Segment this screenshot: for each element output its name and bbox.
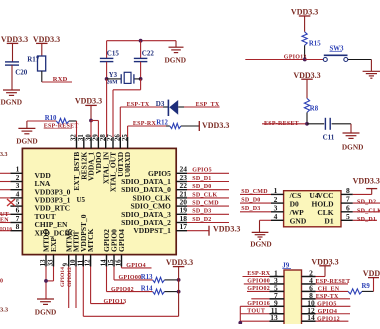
U5 pin 25 stub xyxy=(127,137,129,148)
svg-text:GPIO4: GPIO4 xyxy=(318,309,338,315)
U5 pin 11 stub xyxy=(82,255,84,267)
svg-text:GPIO16: GPIO16 xyxy=(247,301,270,307)
J9 pin 4 stub xyxy=(302,283,316,285)
svg-text:GND: GND xyxy=(290,217,307,226)
svg-text:GPIO4: GPIO4 xyxy=(117,229,126,252)
power VDD3.3 (R12) xyxy=(198,121,200,131)
resistor R12 xyxy=(170,123,181,128)
wire xyxy=(305,59,323,61)
U4 pin 1 stub xyxy=(271,193,284,195)
J9 pin 14 stub xyxy=(302,320,316,322)
svg-text:29: 29 xyxy=(93,134,100,141)
U5 pin 3 stub xyxy=(10,189,22,191)
wire xyxy=(127,126,129,137)
wire xyxy=(45,267,47,300)
wire xyxy=(68,267,70,309)
wire xyxy=(353,219,377,221)
wire xyxy=(113,267,115,280)
svg-text:VDD3.3: VDD3.3 xyxy=(311,257,338,266)
wire xyxy=(316,313,351,315)
wire xyxy=(316,305,351,307)
crystal Y3 xyxy=(107,78,122,80)
svg-text:GPIO02: GPIO02 xyxy=(111,287,134,293)
wire xyxy=(187,205,229,207)
capacitor C15 xyxy=(106,41,108,59)
svg-text:IO16: IO16 xyxy=(0,226,12,232)
wire xyxy=(306,112,308,123)
svg-text:R12: R12 xyxy=(156,120,168,127)
power VDD3.3 (U4 VCC) xyxy=(366,188,377,190)
svg-text:C11: C11 xyxy=(323,133,335,141)
svg-text:14: 14 xyxy=(101,259,108,266)
svg-text:U5: U5 xyxy=(77,196,86,204)
wire xyxy=(262,123,307,125)
svg-text:VDD3.3: VDD3.3 xyxy=(166,258,193,267)
wire xyxy=(370,60,372,72)
wire xyxy=(348,59,371,61)
U4 pin 8 stub xyxy=(341,193,353,195)
svg-text:GPIO13: GPIO13 xyxy=(104,299,127,305)
ground DGND (U4) xyxy=(252,231,269,233)
wire xyxy=(260,219,272,221)
svg-text:C20: C20 xyxy=(15,69,28,77)
U4 pin 7 stub xyxy=(341,202,353,204)
ground DGND (R10) xyxy=(18,127,35,129)
wire xyxy=(187,197,229,199)
svg-text:GPIO4: GPIO4 xyxy=(126,263,146,269)
wire xyxy=(41,71,43,82)
resistor R9 xyxy=(348,289,362,294)
svg-text:GPIO12: GPIO12 xyxy=(67,267,73,287)
svg-text:VDD3.3: VDD3.3 xyxy=(75,97,102,106)
svg-text:14: 14 xyxy=(307,313,315,322)
junction xyxy=(305,122,309,126)
svg-text:ESP-TX: ESP-TX xyxy=(127,102,150,108)
svg-text:R17: R17 xyxy=(27,56,40,64)
wire xyxy=(11,65,13,90)
wire xyxy=(0,213,10,215)
svg-text:R9: R9 xyxy=(362,283,371,290)
wire xyxy=(0,181,10,183)
svg-text:C15: C15 xyxy=(107,49,120,57)
svg-text:SD_D1: SD_D1 xyxy=(192,176,211,182)
wire xyxy=(119,107,121,137)
J9 pin 12 stub xyxy=(302,313,316,315)
svg-text:GPIO02: GPIO02 xyxy=(247,286,270,292)
svg-text:ESP-RESET: ESP-RESET xyxy=(264,121,299,127)
wire xyxy=(353,193,372,195)
svg-text:D1: D1 xyxy=(324,217,333,226)
wire xyxy=(121,267,123,268)
wire xyxy=(0,197,10,199)
wire xyxy=(187,189,229,191)
chip U5 body xyxy=(22,148,176,254)
junction xyxy=(177,290,181,294)
svg-text:ESP-RX: ESP-RX xyxy=(247,271,271,277)
ground (SW3) xyxy=(363,70,380,72)
svg-text:R13: R13 xyxy=(141,274,153,281)
wire xyxy=(247,290,270,292)
svg-text:D3: D3 xyxy=(156,100,165,108)
wire xyxy=(353,202,380,204)
wire xyxy=(350,124,352,133)
ground DGND (crystal) xyxy=(175,41,177,48)
wire xyxy=(181,125,199,127)
wire xyxy=(240,211,271,213)
wire xyxy=(0,189,10,191)
svg-text:2: 2 xyxy=(274,195,278,204)
svg-text:VDD3.3: VDD3.3 xyxy=(353,177,380,186)
wire xyxy=(239,306,241,323)
junction xyxy=(89,119,93,123)
svg-text:DGND: DGND xyxy=(35,308,57,317)
svg-text:SD_CLK: SD_CLK xyxy=(192,192,217,198)
svg-text:R10: R10 xyxy=(45,115,57,122)
svg-text:R8: R8 xyxy=(310,105,319,112)
svg-text:DGND: DGND xyxy=(1,98,23,107)
svg-text:15: 15 xyxy=(108,259,115,266)
svg-text:1: 1 xyxy=(274,186,278,195)
wire xyxy=(91,120,98,122)
wire xyxy=(245,59,304,61)
svg-text:/CS: /CS xyxy=(289,191,302,200)
junction xyxy=(303,58,307,62)
wire xyxy=(251,298,269,300)
svg-text:R14: R14 xyxy=(141,286,153,293)
svg-text:VDD3.3: VDD3.3 xyxy=(33,35,60,44)
svg-text:HOLD: HOLD xyxy=(312,200,335,209)
wire xyxy=(316,320,349,322)
J9 pin 5 stub xyxy=(270,290,285,292)
wire xyxy=(240,202,271,204)
junction xyxy=(177,278,181,282)
svg-text:28: 28 xyxy=(100,134,107,141)
svg-text:16: 16 xyxy=(116,259,123,266)
wire xyxy=(316,298,351,300)
svg-text:4: 4 xyxy=(274,212,278,221)
wire xyxy=(332,123,351,125)
svg-text:SD_D3: SD_D3 xyxy=(241,206,260,212)
svg-text:TOUT: TOUT xyxy=(247,308,265,314)
resistor R8 xyxy=(304,98,309,112)
U5 pin 1 stub xyxy=(10,172,22,174)
wire xyxy=(187,230,209,232)
svg-text:GPIO5: GPIO5 xyxy=(192,168,212,174)
svg-text:13: 13 xyxy=(40,259,47,266)
ground DGND (C11) xyxy=(343,132,360,134)
svg-text:GPIO00: GPIO00 xyxy=(247,279,270,285)
J9 pin 11 stub xyxy=(270,313,285,315)
svg-text:8: 8 xyxy=(16,222,20,231)
svg-text:EN: EN xyxy=(0,218,9,224)
wire xyxy=(107,40,176,42)
svg-text:GPIO14: GPIO14 xyxy=(60,267,66,287)
svg-text:D0: D0 xyxy=(290,200,299,209)
ground DGND (C20) xyxy=(3,89,20,91)
svg-text:RXD: RXD xyxy=(53,76,68,83)
wire xyxy=(244,283,270,285)
svg-text:26: 26 xyxy=(115,134,122,141)
wire xyxy=(187,213,229,215)
svg-text:SD_CMD: SD_CMD xyxy=(241,189,268,195)
wire xyxy=(243,276,270,278)
svg-text:Y3: Y3 xyxy=(109,72,118,79)
svg-text:VDDPST_1: VDDPST_1 xyxy=(133,226,171,235)
wire xyxy=(187,172,229,174)
wire xyxy=(165,291,179,293)
U4 pin 6 stub xyxy=(341,211,353,213)
wire xyxy=(106,267,108,292)
U5 pin 15 stub xyxy=(113,255,115,267)
J9 pin 9 stub xyxy=(270,305,285,307)
svg-text:VCC: VCC xyxy=(317,191,333,200)
wire xyxy=(0,222,10,224)
U5 pin 16 stub xyxy=(121,255,123,267)
wire xyxy=(316,283,349,285)
chip U4 body xyxy=(284,191,341,227)
U5 pin 30 stub xyxy=(90,137,92,148)
wire xyxy=(0,230,10,232)
U5 pin 32 stub xyxy=(76,137,78,148)
svg-text:3.3: 3.3 xyxy=(0,152,8,158)
svg-text:SD_CLK: SD_CLK xyxy=(357,208,380,214)
U5 pin 24 stub xyxy=(176,172,187,174)
wire xyxy=(106,79,108,137)
svg-text:SD_D0: SD_D0 xyxy=(192,184,211,190)
capacitor C22 xyxy=(140,41,142,59)
capacitor C11 xyxy=(324,118,326,130)
U5 pin 8 stub xyxy=(10,230,22,232)
resistor R15 xyxy=(302,32,307,46)
wire xyxy=(90,267,92,304)
U5 pin 28 stub xyxy=(105,137,107,148)
svg-text:ESP-RESET: ESP-RESET xyxy=(316,279,351,285)
junction xyxy=(139,39,143,43)
svg-text:9: 9 xyxy=(63,262,70,266)
power VDD3.3 (R9) xyxy=(368,277,379,279)
U4 pin 5 stub xyxy=(341,219,353,221)
diode D3 xyxy=(167,100,169,116)
svg-text:10: 10 xyxy=(70,259,77,266)
svg-text:25: 25 xyxy=(122,134,129,141)
U5 pin 22 stub xyxy=(176,189,187,191)
U5 pin 21 stub xyxy=(176,197,187,199)
svg-text:3.3: 3.3 xyxy=(0,307,9,314)
svg-text:ESP-RX: ESP-RX xyxy=(133,121,157,127)
U5 pin 6 stub xyxy=(10,213,22,215)
U5 pin 17 stub xyxy=(176,230,187,232)
svg-text:DGND: DGND xyxy=(16,137,38,146)
svg-text:0: 0 xyxy=(0,279,3,285)
wire xyxy=(69,120,77,122)
svg-text:ESP_TX: ESP_TX xyxy=(196,102,220,108)
svg-text:DGND: DGND xyxy=(250,240,272,249)
wire xyxy=(307,123,324,125)
junction xyxy=(139,77,143,81)
svg-text:5: 5 xyxy=(346,212,350,221)
svg-text:SD_D0: SD_D0 xyxy=(241,198,260,204)
svg-text:32: 32 xyxy=(71,134,78,141)
svg-text:12: 12 xyxy=(85,259,92,266)
svg-text:CH_EN: CH_EN xyxy=(318,287,340,293)
U5 pin 10 stub xyxy=(75,255,77,267)
capacitor C20 xyxy=(5,61,19,63)
wire xyxy=(240,313,269,315)
junction xyxy=(44,279,48,283)
svg-text:DGND: DGND xyxy=(342,142,364,151)
U5 pin 23 stub xyxy=(176,181,187,183)
J9 pin 8 stub xyxy=(302,298,316,300)
svg-text:17: 17 xyxy=(180,222,188,231)
wire xyxy=(304,45,306,59)
svg-text:SD_D3: SD_D3 xyxy=(192,209,211,215)
wire xyxy=(316,290,349,292)
J9 pin 10 stub xyxy=(302,305,316,307)
svg-text:7: 7 xyxy=(346,195,350,204)
svg-text:VDD3.3: VDD3.3 xyxy=(291,7,318,16)
resistor R17 xyxy=(38,56,46,71)
svg-text:C22: C22 xyxy=(142,49,155,57)
J9 pin 2 stub xyxy=(302,276,316,278)
svg-text:8: 8 xyxy=(346,186,350,195)
wire xyxy=(187,222,229,224)
svg-text:SD_CMD: SD_CMD xyxy=(192,201,219,207)
svg-text:MTCK: MTCK xyxy=(86,229,95,252)
svg-text:27: 27 xyxy=(107,134,114,141)
junction xyxy=(105,77,109,81)
svg-text:33: 33 xyxy=(48,259,55,266)
svg-text:DGND: DGND xyxy=(165,55,187,64)
wire xyxy=(353,211,380,213)
wire xyxy=(187,181,229,183)
U5 pin 2 stub xyxy=(10,181,22,183)
J9 pin 6 stub xyxy=(302,290,316,292)
J9 pin 7 stub xyxy=(270,298,285,300)
wire xyxy=(75,267,77,309)
resistor R14 xyxy=(153,289,165,294)
U5 pin 19 stub xyxy=(176,213,187,215)
svg-text:ESP-TX: ESP-TX xyxy=(316,294,339,300)
switch SW3 xyxy=(323,58,327,62)
ground DGND (U5 pads) xyxy=(37,298,54,300)
U5 pin 12 stub xyxy=(90,255,92,267)
wire xyxy=(82,267,84,317)
wire xyxy=(140,79,142,90)
U5 pin 14 stub xyxy=(106,255,108,267)
U5 pin 13 stub xyxy=(45,255,47,267)
wire xyxy=(362,290,374,292)
wire xyxy=(240,305,269,307)
svg-text:GPIO5: GPIO5 xyxy=(317,301,337,307)
U5 pin 31 stub xyxy=(83,137,85,148)
svg-text:R15: R15 xyxy=(309,41,321,48)
svg-text:GPIO00: GPIO00 xyxy=(119,275,142,281)
svg-text:VDD3.3: VDD3.3 xyxy=(293,71,320,80)
svg-text:VDD3.3: VDD3.3 xyxy=(363,269,380,278)
svg-text:SD_D2: SD_D2 xyxy=(357,200,376,206)
resistor R13 xyxy=(153,277,165,282)
svg-text:SD_D1: SD_D1 xyxy=(357,217,376,223)
U5 pin 29 stub xyxy=(97,137,99,148)
U4 pin 4 stub xyxy=(271,219,284,221)
junction xyxy=(238,321,242,325)
svg-text:VDD3.3: VDD3.3 xyxy=(202,121,229,130)
wire xyxy=(0,172,10,174)
svg-text:U0RXD: U0RXD xyxy=(123,151,132,177)
svg-text:11: 11 xyxy=(77,259,84,266)
wire xyxy=(240,193,271,195)
U5 pin 33 stub xyxy=(53,255,55,267)
U5 pin 20 stub xyxy=(176,205,187,207)
U4 pin 3 stub xyxy=(271,211,284,213)
no-connect X on pin 5 xyxy=(7,199,15,206)
U5 pin 26 stub xyxy=(119,137,121,148)
resistor R10 xyxy=(56,118,69,123)
wire xyxy=(165,279,179,281)
svg-text:VDD3.3: VDD3.3 xyxy=(1,35,28,44)
J9 pin 3 stub xyxy=(270,283,285,285)
J9 pin 1 stub xyxy=(270,276,285,278)
U5 pin 5 stub xyxy=(10,205,22,207)
wire xyxy=(26,121,28,128)
connector J9 body xyxy=(284,270,302,326)
svg-text:SD_D2: SD_D2 xyxy=(192,217,211,223)
svg-text:26M: 26M xyxy=(107,79,119,85)
svg-text:13: 13 xyxy=(270,313,278,322)
U4 pin 2 stub xyxy=(271,202,284,204)
U5 pin 27 stub xyxy=(112,137,114,148)
U5 pin 18 stub xyxy=(176,222,187,224)
svg-text:EXP: EXP xyxy=(49,237,58,252)
power VDD3.3 (U5 pin17) xyxy=(208,226,210,236)
U5 pin 9 stub xyxy=(68,255,70,267)
svg-text:30: 30 xyxy=(85,134,92,141)
wire xyxy=(316,276,326,278)
U5 pin 7 stub xyxy=(10,222,22,224)
J9 pin 13 stub xyxy=(270,320,285,322)
U5 pin 4 stub xyxy=(10,197,22,199)
svg-text:31: 31 xyxy=(78,134,85,141)
wire xyxy=(178,106,184,108)
svg-text:VDD3.3: VDD3.3 xyxy=(213,224,240,233)
svg-text:GPIO12: GPIO12 xyxy=(317,316,340,322)
